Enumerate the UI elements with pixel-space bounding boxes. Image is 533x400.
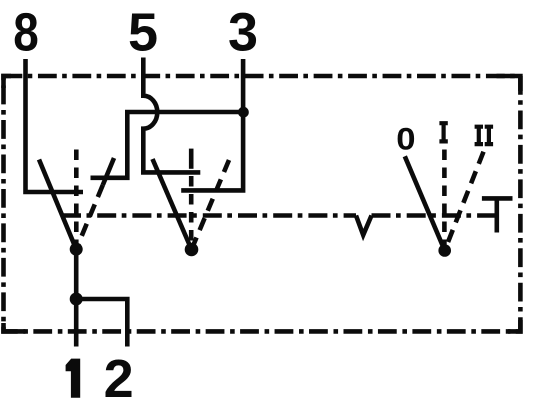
junction node above terminals 1/2 <box>70 293 83 306</box>
rotary position label I <box>439 123 447 141</box>
switch S2 centre line (position I, dashed) <box>189 176 194 250</box>
detent stop T symbol <box>482 198 513 232</box>
terminal label 1 <box>66 359 81 398</box>
svg-text:3: 3 <box>228 3 258 63</box>
wire from terminal 5 with crossover hop, to fixed contact bar S2a <box>143 58 200 173</box>
switch S1 arm position II (dashed) <box>76 185 103 249</box>
switch S1 movable arm (position 0, solid) <box>39 160 76 250</box>
switch S1 fixed contact tick (position II) <box>103 158 114 185</box>
wire from node to fixed contact bar S1b <box>91 112 244 178</box>
rotary selector arm position II (dashed) <box>445 152 484 251</box>
svg-text:8: 8 <box>13 2 39 62</box>
switch S1 centre line (position I, dashed) <box>74 150 79 250</box>
rotary selector pivot node <box>438 244 451 257</box>
switch S2 arm position II (dashed) <box>192 160 230 250</box>
wire branch to terminal 2 <box>76 299 127 347</box>
rotary position label II <box>475 127 494 144</box>
svg-text:2: 2 <box>104 349 134 400</box>
mechanical linkage line (dash-dot) right part <box>372 213 497 218</box>
enclosure border (dash-dot frame) <box>4 76 521 331</box>
mechanical linkage line (dash-dot) left part <box>62 213 356 218</box>
wire from terminal 3 down to fixed contact bar S2b <box>181 59 243 190</box>
switch S2 pivot node <box>185 243 199 257</box>
wire from S1 pivot to terminal 1 <box>74 249 79 346</box>
svg-text:5: 5 <box>128 3 158 63</box>
junction node under terminal 3 <box>238 107 249 118</box>
linkage break notch <box>356 216 372 236</box>
rotary selector arm position 0 (solid) <box>405 156 445 250</box>
switch S1 pivot node <box>70 243 83 256</box>
border corner joints <box>4 76 521 331</box>
wire from terminal 8 to fixed contact bar S1a <box>26 59 84 192</box>
svg-text:0: 0 <box>396 122 415 157</box>
switch S2 movable arm (position 0, solid) <box>153 159 192 250</box>
switch S2 centre fixed contact tick <box>189 149 194 169</box>
rotary selector centre line position I (dashed) <box>442 150 447 251</box>
